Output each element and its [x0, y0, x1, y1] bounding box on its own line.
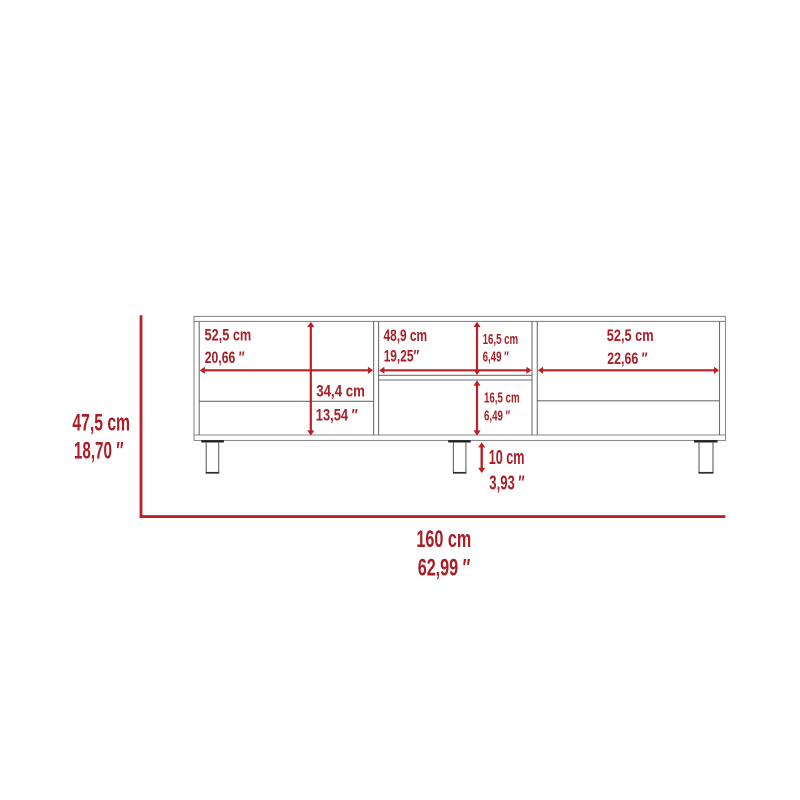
svg-text:52,5 cm: 52,5 cm	[205, 326, 252, 345]
svg-text:18,70 ″: 18,70 ″	[74, 438, 124, 464]
svg-text:47,5 cm: 47,5 cm	[72, 411, 130, 437]
svg-text:16,5 cm: 16,5 cm	[483, 331, 519, 348]
svg-text:16,5 cm: 16,5 cm	[484, 390, 520, 407]
svg-text:160 cm: 160 cm	[416, 526, 471, 553]
svg-text:48,9 cm: 48,9 cm	[384, 327, 428, 346]
svg-text:20,66 ″: 20,66 ″	[205, 349, 245, 367]
svg-text:22,66 ″: 22,66 ″	[607, 350, 647, 368]
svg-text:52,5 cm: 52,5 cm	[607, 326, 654, 345]
svg-text:10 cm: 10 cm	[489, 446, 525, 469]
svg-text:62,99 ″: 62,99 ″	[418, 554, 471, 581]
svg-text:3,93 ″: 3,93 ″	[489, 472, 524, 494]
svg-text:6,49 ″: 6,49 ″	[483, 349, 509, 366]
svg-text:34,4 cm: 34,4 cm	[316, 382, 365, 401]
svg-text:6,49 ″: 6,49 ″	[484, 407, 510, 424]
svg-text:19,25″: 19,25″	[384, 348, 419, 367]
svg-text:13,54 ″: 13,54 ″	[316, 406, 358, 425]
